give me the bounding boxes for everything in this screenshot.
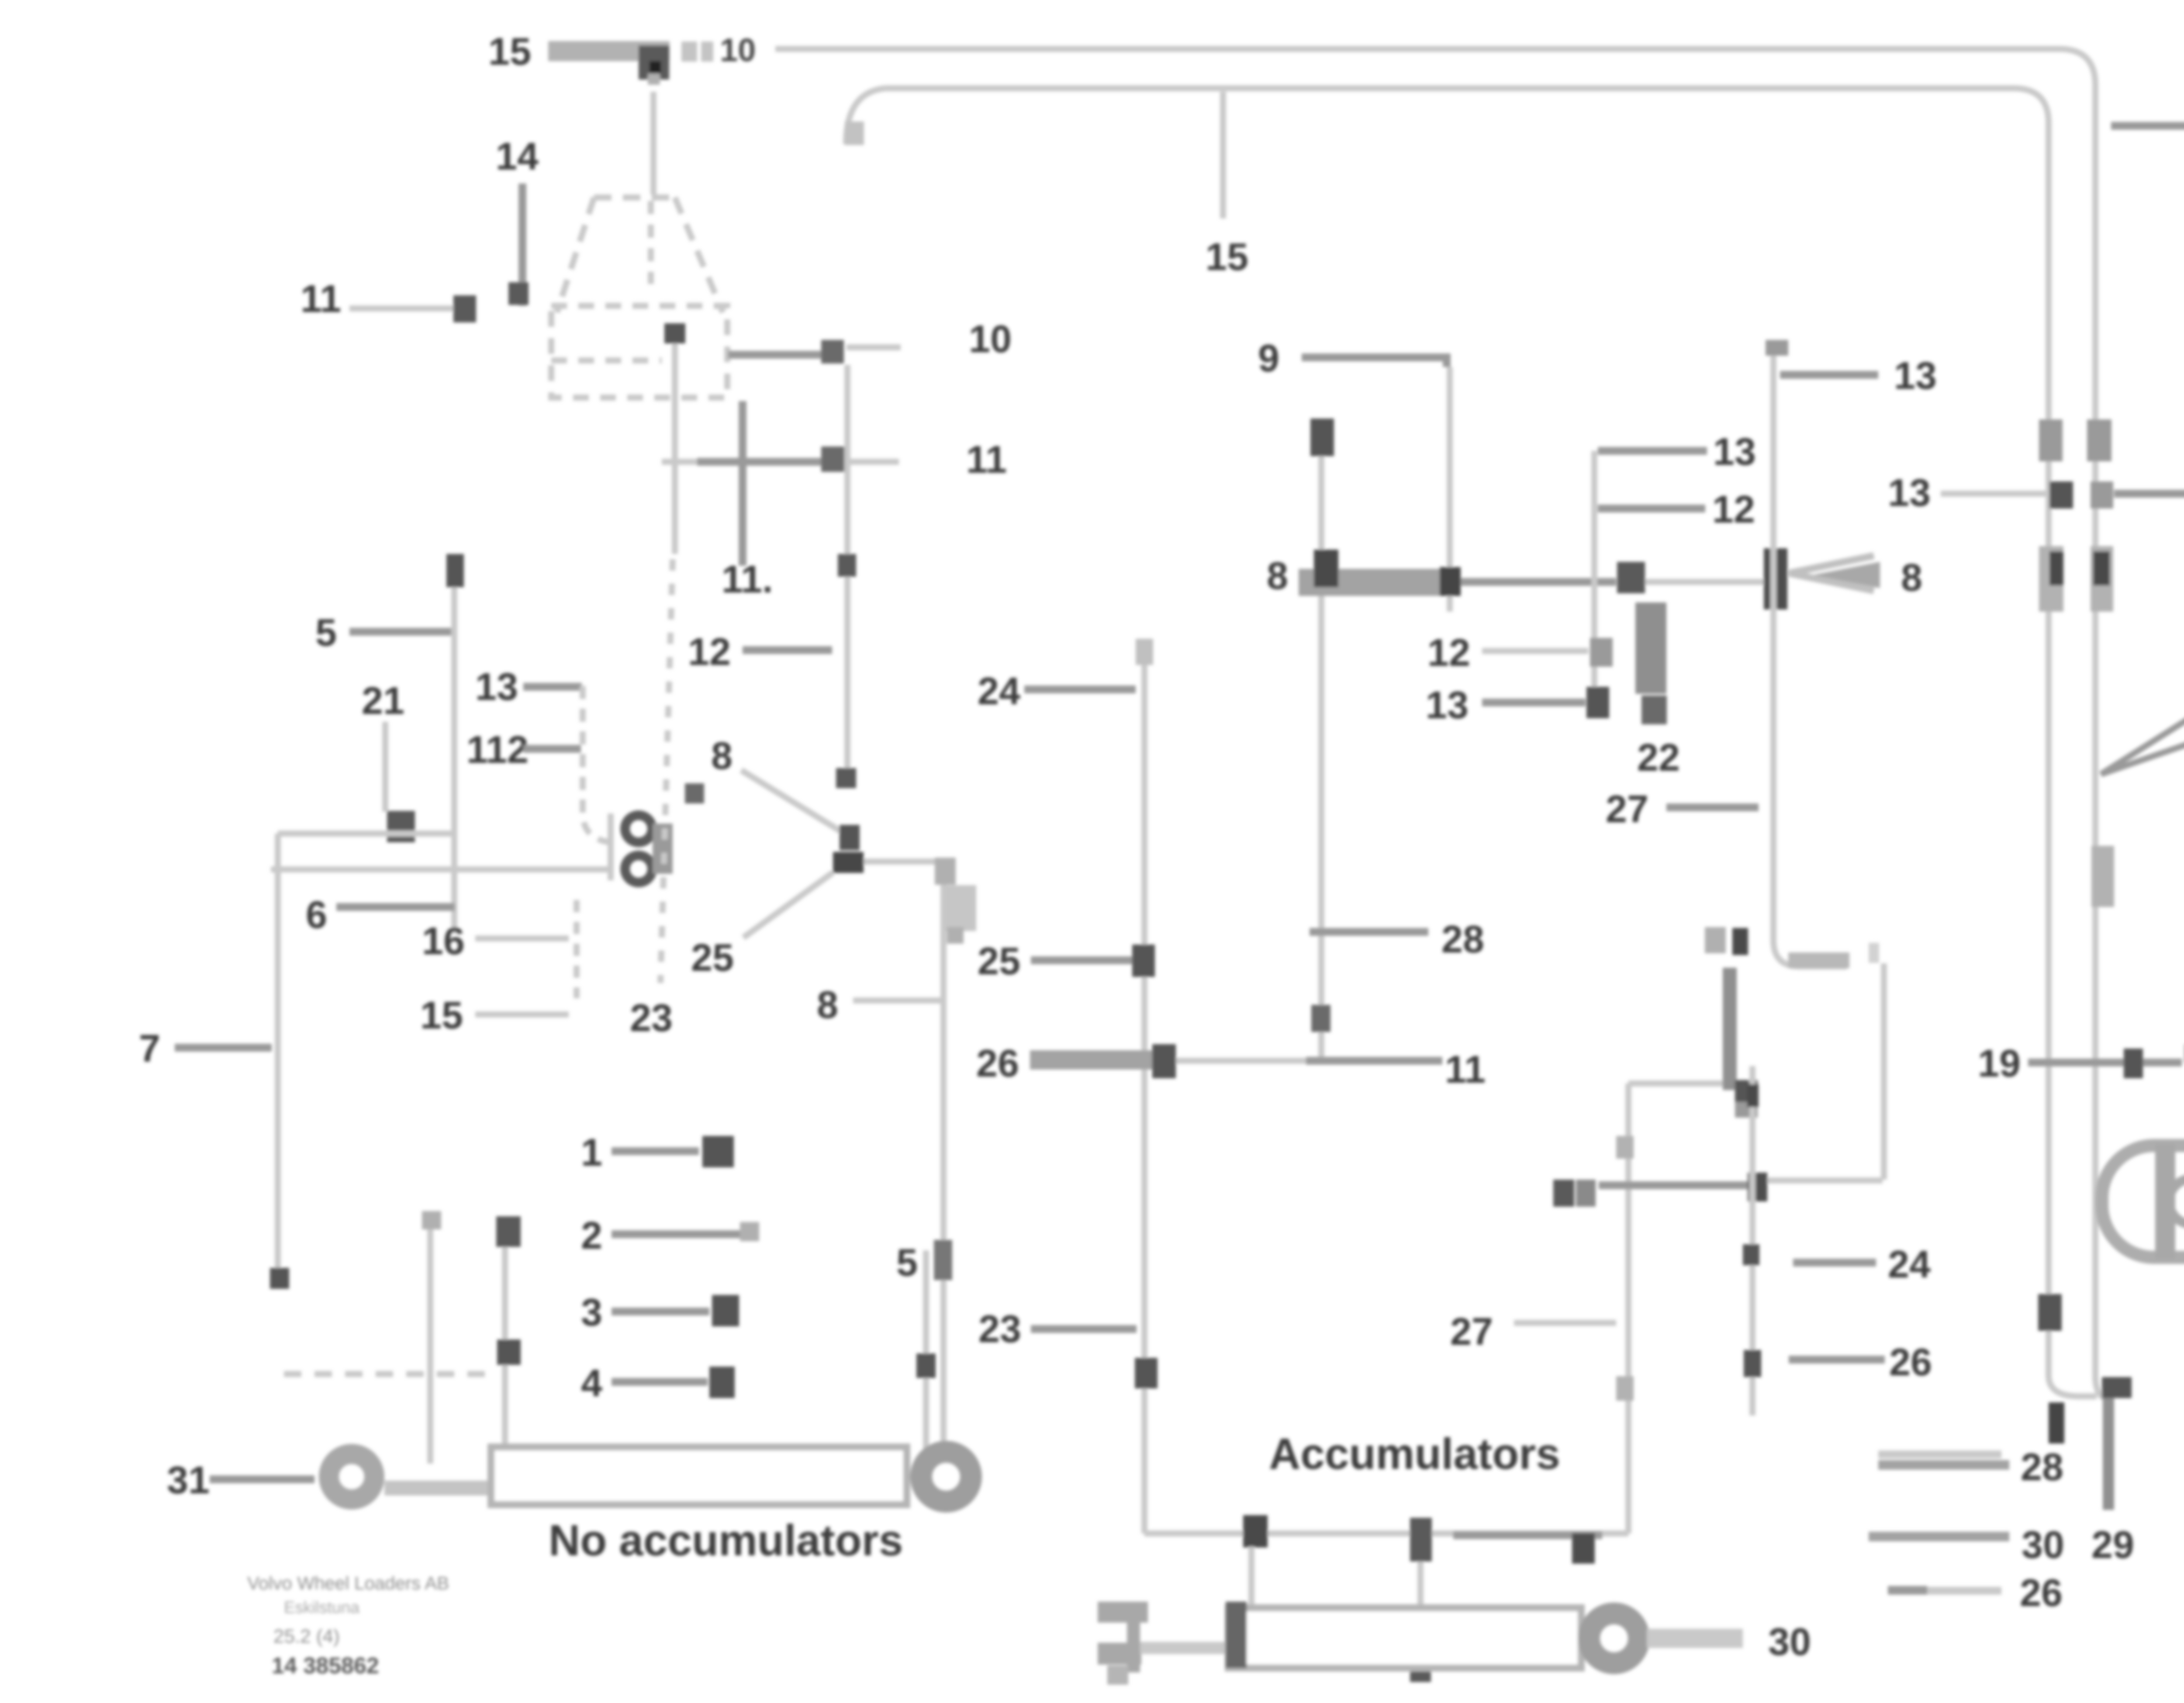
elbow bar [1788,952,1849,968]
node at boot left [508,282,529,305]
svg-text:22: 22 [1637,736,1680,779]
gray tick on box right edge low [1616,1376,1634,1401]
tick at bottom of left vertical [270,1268,289,1289]
dark left edge [1226,1602,1247,1668]
wire leader [523,745,581,753]
junction dark on supply [1314,550,1338,587]
svg-text:26: 26 [2020,1571,2063,1614]
left long vertical wire [275,834,281,1284]
wire 5 leader [349,628,453,636]
vertical to label 15 (mid top) [1220,92,1226,218]
svg-text:15: 15 [420,993,463,1037]
box bottom wire [1144,1530,1628,1537]
node at top of drop wire [935,858,956,885]
node on 24-26 vertical [1747,1084,1759,1107]
wire 24 leader [1024,685,1136,693]
piston bar inside cylinder [1410,1634,1431,1682]
fitting gray [1590,638,1613,667]
svg-text:6: 6 [306,893,327,936]
wire [1482,699,1586,706]
svg-text:8: 8 [817,983,838,1026]
tick [1136,639,1153,665]
gray mass on drop vertical [945,885,976,931]
svg-text:11: 11 [1445,1048,1486,1091]
wire 7 leader [175,1044,272,1052]
wire down to 29 [2103,1398,2114,1510]
box left wire [1141,639,1147,1533]
svg-text:24: 24 [1888,1243,1931,1286]
fitting dark [1586,687,1609,718]
svg-text:Volvo Wheel Loaders AB: Volvo Wheel Loaders AB [247,1573,449,1593]
row 28 [1878,1450,2001,1458]
wire 9 with corner [1302,357,1447,367]
merge node [2102,1377,2132,1398]
wire leader 11 [847,459,899,465]
cylinder feed wire B [923,1250,929,1455]
tick [496,1216,521,1247]
wire 11 leader [349,305,454,312]
svg-text:1: 1 [581,1131,602,1174]
junction tick [934,1240,952,1280]
svg-text:13: 13 [1426,683,1469,727]
svg-text:24: 24 [978,669,1020,713]
svg-text:Eskilstuna: Eskilstuna [284,1599,360,1617]
wire from 14 down [518,183,526,306]
light tick before drop [1869,943,1879,963]
hose 8 thick bar [1299,569,1443,596]
blob pair at box right edge top [1553,1180,1574,1207]
horizontal wire upper [278,831,454,837]
wire 4 [612,1378,708,1386]
small light pair [681,42,697,62]
small gray + label 11 [1705,927,1726,953]
wire 25 leader [1031,956,1133,964]
svg-text:27: 27 [1606,787,1648,831]
svg-text:Accumulators: Accumulators [1269,1430,1560,1478]
cylinder left feed wire A [502,1232,508,1464]
node on box edge [1135,1358,1158,1388]
wire 13 upper [1598,447,1707,455]
wire down to 11. [739,401,746,566]
svg-text:8: 8 [711,734,733,777]
svg-text:12: 12 [1427,631,1470,674]
wire 11 from valve [662,459,697,465]
svg-text:15: 15 [488,30,531,73]
fitting 11 [821,447,845,472]
dashed wire bottom left [284,1371,489,1377]
svg-text:30: 30 [1768,1620,1811,1663]
node near box bottom right [1572,1533,1595,1564]
svg-text:4: 4 [581,1361,602,1405]
wire cont [1176,1058,1306,1064]
junction tick small [685,783,704,803]
svg-text:13: 13 [1894,354,1937,397]
tick on box bottom [1410,1518,1432,1561]
wire leader 10 [847,344,901,350]
top inner line [886,88,2049,1375]
wire [1482,648,1588,654]
svg-text:29: 29 [2091,1523,2134,1566]
wire 27 leader [1666,803,1759,811]
svg-text:26: 26 [976,1042,1019,1085]
svg-text:23: 23 [630,996,673,1039]
row 26 [1888,1587,2001,1595]
svg-text:25.2 (4): 25.2 (4) [273,1626,340,1647]
wire down from fitting 10 [844,365,850,778]
rod end node [1572,1630,1595,1652]
junction halos on verticals [2039,546,2063,612]
tick under fitting [648,73,660,85]
node on right vertical [2038,1294,2062,1331]
cylinder body (no accumulators) [491,1447,907,1505]
node [1735,1080,1758,1102]
main center-left drop wire [940,862,947,1450]
clevis bracket [1098,1602,1148,1623]
gray tick on drop vertical [947,927,964,944]
node gray on outer vertical [2091,481,2113,509]
wire 10 from orbitrol [728,351,821,359]
fitting [712,1295,739,1326]
accumulator valve thick wire [1723,968,1737,1090]
wire 15 leader [475,1011,569,1018]
svg-text:27: 27 [1450,1310,1493,1353]
tick dark [2124,1049,2143,1078]
svg-text:16: 16 [422,919,465,962]
wire 12 lower [1598,505,1705,512]
orbitrol steering unit (dashed body) [551,306,727,398]
top outer line [775,49,2095,1375]
horizontal wire lower [271,866,612,872]
svg-text:3: 3 [581,1291,602,1334]
dark node [1641,696,1667,724]
wire drop 2 to cylinder [1417,1561,1424,1608]
node dot [453,295,476,322]
svg-text:26: 26 [1889,1340,1932,1384]
tick top [446,554,464,587]
rod eye [329,1454,374,1499]
junction dark [1440,567,1461,596]
node blob [840,825,860,850]
row 30 [1869,1532,2009,1541]
box right wire [1625,1083,1631,1533]
box top-right elbow [1628,1080,1728,1087]
svg-text:5: 5 [315,611,337,654]
svg-text:31: 31 [167,1458,210,1502]
svg-text:14: 14 [496,135,539,178]
funnel (steering column boot) [557,197,723,312]
svg-text:19: 19 [1978,1042,2021,1085]
inner line left end curve [846,88,886,144]
svg-text:112: 112 [467,728,529,771]
vertical part wire [451,585,457,933]
tick [916,1353,936,1378]
svg-text:13: 13 [475,665,518,708]
node on wire [1748,1173,1767,1201]
node [1152,1044,1176,1078]
wire across box edge [1599,1181,1767,1189]
svg-text:25: 25 [691,936,734,979]
wire 12 leader [743,646,832,654]
node blob lower [833,852,864,873]
svg-text:12: 12 [1712,488,1755,531]
svg-text:10: 10 [969,317,1012,360]
label 24 (right col) [1793,1259,1876,1267]
wire to 17 [2114,490,2184,498]
wire 1 [612,1147,699,1155]
svg-text:10: 10 [720,32,756,68]
wire 13 branch [1780,371,1878,379]
vertical for 24/26 [1749,1066,1755,1416]
svg-text:13: 13 [1713,430,1756,473]
label 28 [1310,928,1428,936]
cylinder end ring [921,1452,971,1502]
piston rod [384,1481,490,1495]
rod to cylinder [1140,1642,1227,1654]
dashed wire to port cluster [583,686,611,842]
svg-text:2: 2 [581,1214,602,1257]
funnel feed wire [650,92,657,194]
svg-text:12: 12 [688,630,731,673]
port cluster left wire [608,813,614,880]
svg-text:8: 8 [1901,556,1922,599]
accumulator valve bar [1635,602,1666,694]
gray blobs on verticals [2039,419,2063,461]
svg-text:21: 21 [362,679,404,722]
wire 8c leader [853,997,943,1004]
label 16 (top right) [2111,122,2184,130]
wire to drop vertical [864,858,939,865]
fitting at drop end [387,811,415,842]
fitting dot [1617,562,1645,593]
gray block right of rings [653,824,673,874]
node dark on inner vertical [2049,481,2073,509]
svg-text:7: 7 [139,1027,160,1070]
branch vertical 3650 [1591,451,1597,699]
fitting blob at end of 15 bar [639,45,669,80]
wire diagonal 2 [743,872,833,938]
Y merge curves [2049,1375,2097,1396]
fitting [709,1367,735,1398]
end ring [1589,1613,1639,1663]
wire 23 leader [1031,1325,1137,1333]
wire 16 leader [475,935,569,941]
wire 19 leader [2028,1059,2182,1066]
node on box bottom left [1243,1515,1268,1547]
wire 13-17 light [1941,491,2049,497]
wire 6 leader [336,903,455,911]
tick [1311,1005,1330,1032]
junction tick [836,768,856,788]
wire 3 [612,1308,709,1315]
wire along box lower right [1767,1177,1883,1184]
svg-text:5: 5 [896,1241,918,1284]
gray tick on box right edge top [1616,1136,1634,1159]
wire 21 drop leader [382,722,388,812]
wire 31 leader [210,1475,314,1483]
wire from box bottom to cylinder [1248,1547,1254,1608]
fitting 10 [821,340,844,363]
svg-text:25: 25 [978,939,1020,983]
junction tick tall [1764,548,1787,609]
svg-text:11.: 11. [722,557,773,601]
hose 15 leader bar [548,41,670,61]
dashed drop wire [574,900,580,998]
wire down from orbitrol dot [672,343,678,554]
junction tick [838,554,856,577]
label 26 (right col) [1789,1356,1885,1364]
svg-text:11: 11 [301,277,341,320]
rod line inside cylinder [1268,1633,1380,1646]
svg-text:11: 11 [966,438,1007,481]
wire 27b leader [1514,1320,1616,1326]
medium segment of box bottom [1453,1531,1602,1539]
pointer 18 triangle [2101,675,2184,774]
svg-text:14 385862: 14 385862 [272,1653,379,1679]
right-center vertical [1773,346,1847,966]
dark dot on orbitrol [664,323,685,343]
drop wire from elbow [1881,963,1887,1180]
port rings [625,815,652,842]
cylinder body (accumulators) [1228,1608,1581,1668]
svg-text:23: 23 [978,1307,1021,1350]
svg-text:30: 30 [2022,1523,2064,1566]
wire 2 [612,1230,740,1238]
wire diagonal 1 [741,770,850,837]
hose 26 leader [1030,1050,1153,1070]
top tick [1766,340,1788,356]
svg-text:13: 13 [1888,471,1931,514]
wire light [1645,579,1766,585]
node [1132,945,1155,977]
tick [497,1340,521,1365]
svg-text:28: 28 [1441,917,1484,961]
fitting [702,1136,734,1167]
wire 13 leader [523,683,582,691]
svg-text:8: 8 [1267,554,1288,597]
svg-text:9: 9 [1258,336,1279,380]
svg-text:No accumulators: No accumulators [549,1516,903,1565]
arrow chevrons [1789,556,1874,591]
gray block at inner line left end [845,121,864,145]
dark cap [1310,419,1334,456]
wire 9 vertical [1447,367,1453,612]
svg-text:28: 28 [2021,1445,2063,1488]
svg-text:15: 15 [1206,235,1248,278]
feed wire v985 [427,1215,433,1464]
dashed wire to 23 [660,559,673,983]
piston rod [1647,1629,1743,1648]
center vertical wire (supply) [1318,437,1324,1062]
wire mid [1461,578,1616,586]
